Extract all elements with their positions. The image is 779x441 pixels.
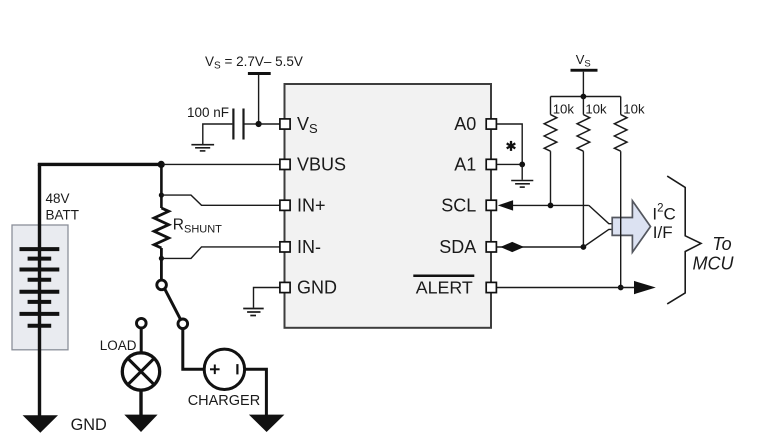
node ALERT pullup dot [618, 285, 624, 291]
svg-text:MCU: MCU [693, 254, 735, 274]
arrowhead diamond SDA [500, 242, 524, 252]
wire VBUS to pin [161, 163, 280, 165]
wire ALERT [497, 287, 634, 289]
node IN+ takeoff dot [159, 193, 164, 198]
pin IN+ square [280, 200, 290, 210]
wire switch throw to lamp [140, 328, 143, 353]
ground under A1 [511, 181, 533, 188]
supply bar pullups [571, 69, 598, 72]
wire IN+ [161, 195, 280, 205]
svg-text:10k: 10k [553, 101, 575, 116]
resistor RSHUNT [154, 208, 169, 248]
resistor R3 10k [620, 97, 622, 115]
node IN- takeoff dot [159, 256, 164, 261]
IC U1 body [285, 84, 492, 328]
battery B1 48V box [12, 225, 68, 350]
capacitor C1 plate right [242, 109, 244, 140]
pin VBUS square [280, 159, 290, 169]
asterisk optional note [507, 141, 516, 151]
svg-text:SDA: SDA [439, 237, 476, 257]
arrowhead ALERT out [634, 281, 656, 294]
svg-text:GND: GND [71, 416, 107, 434]
resistor R1 10k [550, 97, 552, 115]
pin A1 square [486, 159, 496, 169]
resistor R2 10k [582, 97, 584, 115]
wire battery to GND arrow (thick vertical) [38, 164, 41, 416]
svg-text:48V: 48V [46, 191, 70, 206]
switch S1 throw contact to charger [178, 319, 188, 329]
svg-text:100 nF: 100 nF [187, 105, 229, 120]
svg-text:LOAD: LOAD [100, 338, 137, 353]
wire A0 to A1 node [497, 124, 522, 164]
svg-text:IN+: IN+ [297, 195, 326, 215]
battery B1 cells [20, 249, 60, 326]
ground arrow charger [249, 415, 285, 432]
wire switch to charger [183, 329, 205, 370]
node rail junction dot [581, 94, 587, 100]
svg-text:A1: A1 [454, 154, 476, 174]
svg-text:10k: 10k [585, 101, 607, 116]
wire battery top bus (thick) [40, 164, 162, 166]
node SDA pullup dot [581, 244, 587, 250]
ground under GND pin [243, 309, 264, 316]
node VBUS junction dot [158, 161, 165, 168]
wire A1 node to ground [521, 164, 523, 179]
pin SCL square [486, 200, 496, 210]
svg-text:10k: 10k [623, 101, 645, 116]
I2C interface block arrow [612, 201, 650, 252]
pin VS square [280, 119, 290, 129]
node VS junction dot [256, 121, 262, 127]
wire SCL [511, 204, 589, 206]
switch S1 throw contact to load [137, 318, 147, 328]
wire R3 to ALERT (crosses arrow) [620, 151, 622, 287]
wire charger to ground [245, 369, 267, 416]
svg-text:GND: GND [297, 278, 337, 298]
svg-text:A0: A0 [454, 114, 476, 134]
arrowhead into SCL [498, 200, 513, 210]
pin A0 square [486, 119, 496, 129]
ALERT overline [413, 275, 474, 278]
pin ALERT square [486, 282, 496, 292]
svg-text:I2C: I2C [652, 203, 675, 224]
wire GND pin to ground [254, 288, 281, 308]
node SCL pullup dot [548, 203, 554, 209]
svg-text:ALERT: ALERT [416, 278, 473, 298]
wire lamp to ground [139, 390, 142, 416]
wire cap left plate to ground [203, 124, 233, 144]
node A1 junction dot [519, 162, 525, 168]
svg-text:BATT: BATT [46, 208, 80, 223]
switch S1 pole contact [157, 280, 167, 290]
ground arrow lamp [124, 415, 157, 432]
svg-text:VBUS: VBUS [297, 154, 346, 174]
ground under capacitor [191, 145, 214, 151]
wire shunt to switch pole [160, 248, 163, 280]
svg-text:I/F: I/F [653, 223, 673, 242]
brace to MCU [667, 176, 701, 304]
svg-text:IN-: IN- [297, 237, 321, 257]
wire SCL diagonal to I2C arrow [589, 205, 613, 223]
wire SDA diagonal to I2C arrow [583, 229, 612, 247]
pin SDA square [486, 242, 496, 252]
charger plus symbol [210, 368, 220, 370]
wire cap right plate to node [245, 123, 259, 125]
wire junction down to shunt [160, 164, 163, 208]
charger minus symbol [236, 364, 238, 374]
ground arrow battery [23, 415, 58, 433]
svg-text:SCL: SCL [441, 195, 476, 215]
charger G1 circle [204, 349, 244, 389]
wire node to VS pin [259, 123, 280, 125]
svg-text:CHARGER: CHARGER [188, 393, 261, 409]
wire supply bar to node [258, 75, 260, 124]
supply rail bar [248, 72, 271, 75]
wire IN- [161, 247, 280, 259]
pin IN- square [280, 242, 290, 252]
lamp LOAD circle [122, 353, 159, 390]
pin GND square [280, 282, 290, 292]
switch S1 blade [165, 289, 181, 320]
lamp LOAD X [128, 358, 154, 384]
wire supply to rail [582, 72, 584, 97]
pullup rail wire [551, 96, 621, 98]
wire SDA [497, 246, 584, 248]
wire A1 to node [497, 163, 522, 165]
capacitor C1 plate left [232, 109, 234, 140]
svg-text:To: To [712, 234, 731, 254]
